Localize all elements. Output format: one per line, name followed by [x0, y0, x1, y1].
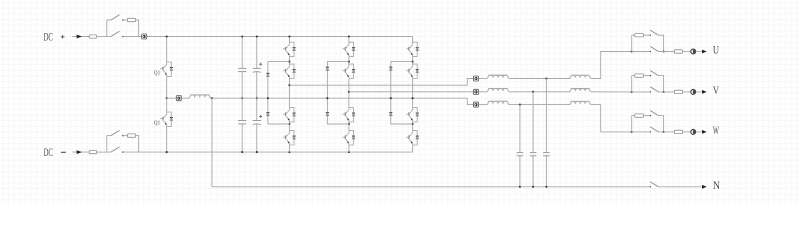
sensor T1 DC+ current sensor — [142, 34, 147, 39]
wire W main to contact — [632, 131, 651, 133]
capacitor C2 upper leads — [256, 37, 258, 69]
wire W fuse to sensor — [683, 131, 691, 133]
wire leg1 top lead — [288, 37, 290, 43]
arrow DC- input — [77, 150, 82, 154]
capacitor Cf phase B lead lower — [532, 156, 534, 187]
junction leg1 J1 — [288, 61, 290, 63]
wire U fuse to sensor — [683, 51, 691, 53]
sensor CT phase A — [474, 76, 479, 81]
capacitor C2 upper plates — [253, 67, 261, 69]
switch K2a precharge contact DC- — [111, 130, 120, 135]
diode D36 clamp lower — [389, 113, 392, 116]
wire phase A between inductors — [509, 78, 570, 80]
wire bypass top path V — [632, 75, 635, 77]
junction leg1 phase output — [288, 84, 290, 86]
wire S33-S34 — [412, 122, 414, 130]
wire phase C between inductors — [509, 104, 570, 106]
transistor S21 IGBT — [343, 42, 354, 57]
wire clamp chain leg2 top stub — [327, 62, 349, 124]
wire clamp chain leg3 top stub — [391, 62, 413, 124]
wire DC+ fuse to switch — [97, 36, 111, 38]
wire S34 to DC- rail — [412, 145, 414, 152]
wire precharge top path left DC- — [107, 135, 111, 137]
switch K1 main contact DC+ — [111, 31, 120, 36]
capacitor C3 lower plates — [238, 120, 246, 122]
junction C1 top rail — [241, 35, 243, 37]
svg-text:Q1: Q1 — [154, 70, 160, 76]
junction C1 mid rail — [241, 97, 243, 99]
wire S12 to output node — [288, 79, 290, 108]
wire W to terminal — [696, 131, 702, 133]
diode D15 clamp upper — [266, 73, 269, 76]
wire balancer mid lower — [166, 98, 168, 112]
svg-text:U: U — [713, 45, 720, 57]
wire phase B to filter inductor — [479, 91, 487, 93]
wire DC+ switch to sensor — [123, 36, 142, 38]
junction bypass rejoin W — [663, 131, 665, 133]
wire balancer mid upper — [166, 77, 168, 99]
junction Cf phase C on neutral — [519, 186, 521, 188]
resistor RU bypass — [635, 34, 644, 37]
switch KV main contact — [650, 91, 651, 92]
wire V fuse to sensor — [683, 91, 691, 93]
wire phase A to filter inductor — [479, 78, 487, 80]
junction clamp chain neutral — [390, 97, 392, 99]
switch KN neutral contact — [650, 186, 651, 187]
sensor CT output U — [691, 49, 696, 54]
capacitor Cf phase A lead upper — [545, 79, 547, 153]
junction C1 bottom rail — [241, 151, 243, 153]
junction balancer on DC+ rail — [166, 35, 168, 37]
wire bypass return W — [658, 116, 663, 132]
inductor Lf1 phase C — [487, 101, 509, 104]
wire U main to contact — [632, 51, 651, 53]
transistor S24 IGBT — [343, 130, 354, 145]
wire balancer leg lower lead — [166, 127, 168, 153]
capacitor Cf phase C plates — [517, 152, 524, 154]
wire phase C to W block — [591, 105, 632, 132]
capacitor C1 upper plates — [238, 67, 246, 69]
switch KVa bypass contact — [650, 75, 651, 76]
wire neutral drop — [211, 98, 213, 187]
transistor Q1 lower IGBT — [160, 112, 171, 127]
wire V to fuse — [658, 91, 674, 93]
wire S22 to output node — [348, 79, 350, 108]
wire bypass top path U — [632, 34, 635, 36]
junction neutral tap — [211, 97, 213, 99]
capacitor Cf phase A plates — [543, 152, 550, 154]
node DC- polarity sign — [61, 151, 66, 153]
svg-text:DC: DC — [44, 31, 53, 43]
arrow DC+ input — [77, 35, 82, 39]
wire precharge to resistor DC+ — [123, 19, 127, 21]
wire precharge to resistor DC- — [123, 135, 127, 137]
switch K2 main contact DC- — [111, 147, 120, 152]
junction balancer on DC- rail — [166, 151, 168, 153]
junction Cf phase A on neutral — [545, 186, 547, 188]
wire phase C to filter inductor — [479, 104, 487, 106]
wire bypass branch V riser — [631, 76, 633, 92]
junction Cf phase B on neutral — [532, 186, 534, 188]
wire DC+ lead-in — [72, 36, 89, 38]
capacitor Cf phase C lead lower — [519, 156, 521, 187]
junction leg1 bottom rail — [288, 151, 290, 153]
inductor Lf2 phase A — [569, 75, 591, 78]
junction filter cap tap phase B — [532, 91, 534, 93]
sensor T2 balancer current sensor — [176, 96, 181, 101]
fuse FU output — [674, 50, 682, 53]
svg-text:DC: DC — [44, 147, 53, 159]
transistor S13 IGBT — [283, 107, 294, 122]
wire bypass top path W — [632, 115, 635, 117]
wire S13-S14 — [288, 122, 290, 130]
junction leg2 J1 — [348, 61, 350, 63]
diode D25 clamp upper — [326, 67, 329, 70]
junction leg3 phase output — [412, 97, 414, 99]
inductor Lf1 phase B — [487, 88, 509, 91]
junction C2 bottom rail — [256, 151, 258, 153]
wire neutral bottom run — [212, 186, 650, 188]
arrow output U — [702, 50, 707, 54]
wire leg2 top lead — [348, 37, 350, 43]
wire bypass to contact V — [644, 75, 651, 77]
switch KW main contact — [650, 131, 651, 132]
node DC+ polarity sign — [61, 35, 65, 39]
arrow output N — [702, 185, 707, 189]
switch K1a precharge contact DC+ — [111, 15, 120, 20]
sensor CT output W — [691, 129, 696, 134]
wire V main to contact — [632, 91, 651, 93]
wire phase B between inductors — [509, 91, 570, 93]
transistor S11 IGBT — [283, 42, 294, 57]
sensor CT phase B — [474, 89, 479, 94]
fuse FW output — [674, 130, 682, 133]
wire clamp chain leg1 top stub — [268, 62, 290, 124]
junction C2 top rail — [256, 35, 258, 37]
capacitor Cf phase B plates — [530, 152, 537, 154]
wire S23-S24 — [348, 122, 350, 130]
wire bypass return V — [658, 76, 663, 92]
wire precharge top path right DC+ — [136, 20, 139, 37]
wire DC- fuse to switch — [97, 151, 111, 153]
inductor Lf2 phase B — [569, 88, 591, 91]
wire S14 to DC- rail — [288, 145, 290, 152]
junction bypass branch U — [631, 50, 633, 52]
wire phase A from leg1 — [289, 79, 473, 86]
junction bypass rejoin V — [663, 91, 665, 93]
capacitor Cf phase B lead upper — [532, 92, 534, 153]
transistor Q1 upper IGBT — [160, 62, 171, 77]
transistor S34 IGBT — [406, 130, 417, 145]
wire sensor to inductor — [181, 97, 188, 99]
capacitor Cf phase A lead lower — [545, 156, 547, 187]
node precharge branch left DC- — [106, 136, 108, 153]
junction leg3 J1 — [412, 61, 414, 63]
capacitor C1 upper leads — [241, 37, 243, 69]
transistor S23 IGBT — [343, 107, 354, 122]
wire bypass to contact W — [644, 115, 651, 117]
fuse FV output — [674, 90, 682, 93]
wire S11-S12 — [288, 57, 290, 64]
junction clamp chain neutral — [267, 97, 269, 99]
capacitor Cf phase C lead upper — [519, 105, 521, 153]
wire S24 to DC- rail — [348, 145, 350, 152]
node precharge branch left DC+ — [106, 20, 108, 37]
wire W to fuse — [658, 131, 674, 133]
resistor RV bypass — [635, 74, 644, 77]
wire phase B from leg2 — [349, 91, 474, 93]
wire DC+ rail — [147, 36, 413, 38]
wire U to fuse — [658, 51, 674, 53]
wire V to terminal — [696, 91, 702, 93]
diode D35 clamp upper — [389, 67, 392, 70]
resistor R2 precharge DC- — [127, 134, 135, 137]
wire DC- rail — [123, 151, 413, 153]
wire bypass to contact U — [644, 34, 651, 36]
wire phase C jog — [467, 98, 473, 104]
junction bypass branch W — [631, 131, 633, 133]
junction filter cap tap phase C — [519, 104, 521, 106]
wire U to terminal — [696, 51, 702, 53]
switch KUa bypass contact — [650, 35, 651, 36]
wire DC- lead-in — [72, 151, 89, 153]
junction bypass branch V — [631, 91, 633, 93]
resistor RW bypass — [635, 114, 644, 117]
junction leg3 J2 — [412, 123, 414, 125]
transistor S22 IGBT — [343, 64, 354, 79]
capacitor C4 lower leads — [256, 98, 258, 120]
wire balancer midpoint to sensor — [167, 97, 177, 99]
resistor R1 precharge DC+ — [127, 18, 135, 21]
arrow output W — [702, 130, 707, 134]
arrow output V — [702, 90, 707, 94]
switch KWa bypass contact — [650, 115, 651, 116]
wire bypass branch U riser — [631, 35, 633, 51]
wire phase A to U block — [591, 52, 632, 79]
transistor S14 IGBT — [283, 130, 294, 145]
diode D26 clamp lower — [326, 113, 329, 116]
wire precharge top path left DC+ — [107, 19, 111, 21]
wire neutral mid rail — [212, 97, 467, 99]
inductor Lf1 phase A — [487, 75, 509, 78]
wire S21-S22 — [348, 57, 350, 64]
transistor S32 IGBT — [406, 64, 417, 79]
wire S31-S32 — [412, 57, 414, 64]
junction leg2 J2 — [348, 123, 350, 125]
junction balancer midpoint — [166, 97, 168, 99]
junction C2 mid rail — [256, 97, 258, 99]
inductor L1 balancer choke — [189, 95, 211, 98]
junction clamp chain neutral — [326, 97, 328, 99]
junction leg2 bottom rail — [348, 151, 350, 153]
junction leg2 top rail — [348, 35, 350, 37]
junction leg2 phase output — [348, 91, 350, 93]
wire bypass branch W riser — [631, 116, 633, 132]
wire S32 to output node — [412, 79, 414, 108]
svg-text:V: V — [713, 85, 720, 97]
junction leg1 J2 — [288, 123, 290, 125]
capacitor C4 lower plates — [253, 120, 261, 122]
fuse F2 on DC- — [89, 151, 97, 154]
fuse F1 on DC+ — [89, 35, 97, 38]
junction leg1 top rail — [288, 35, 290, 37]
svg-text:Q1: Q1 — [154, 120, 160, 126]
junction filter cap tap phase A — [545, 77, 547, 79]
wire N to terminal — [658, 186, 701, 188]
svg-text:N: N — [713, 180, 721, 192]
wire inductor to neutral node — [211, 97, 212, 99]
switch KU main contact — [650, 51, 651, 52]
transistor S31 IGBT — [406, 42, 417, 57]
svg-text:W: W — [713, 125, 719, 137]
wire bypass return U — [658, 35, 663, 51]
wire balancer leg upper lead — [166, 37, 168, 62]
capacitor C3 lower leads — [241, 98, 243, 120]
wire phase B to V block — [591, 91, 632, 93]
inductor Lf2 phase C — [569, 101, 591, 104]
transistor S12 IGBT — [283, 64, 294, 79]
transistor S33 IGBT — [406, 107, 417, 122]
wire leg3 top lead — [412, 37, 414, 43]
sensor CT output V — [691, 89, 696, 94]
junction bypass rejoin U — [663, 50, 665, 52]
sensor CT phase C — [474, 102, 479, 107]
diode D16 clamp lower — [266, 113, 269, 116]
wire precharge top path right DC- — [136, 136, 139, 153]
